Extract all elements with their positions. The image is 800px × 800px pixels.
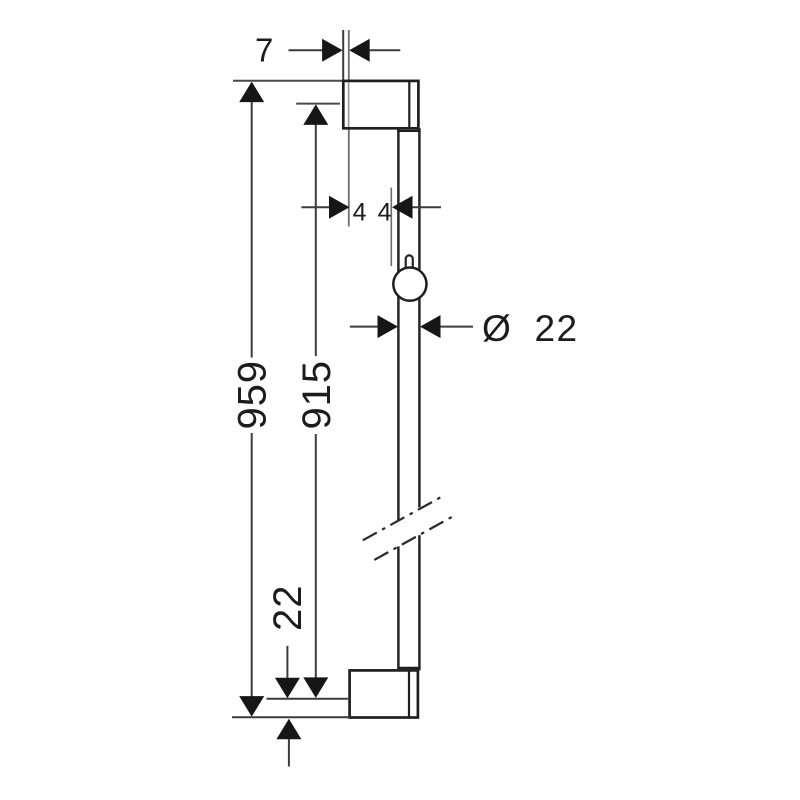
dimension 44 leader line right [413,206,442,208]
wire: extension line v2 segment inside top bracket [348,82,350,127]
rail left edge upper segment [397,130,400,521]
slider knob circle [393,268,426,301]
top bracket inner divider [408,81,410,128]
svg-text:4: 4 [353,199,367,227]
top bracket clamp step [398,128,419,131]
svg-text:915: 915 [295,360,339,429]
dimension 7 arrow right-pointing [322,39,343,62]
dimension 22 arrow up (below bracket) [276,719,301,740]
extension line top of 915 [296,103,340,105]
wire: extension line v2 (right of 7 gap, runs down to 44 dim) [348,30,350,227]
rail right edge lower segment [418,535,421,668]
dimension 22 leader line [286,646,288,680]
bottom bracket inner divider [408,670,410,717]
break line upper diagonal [363,497,441,540]
dimension 959 vertical line lower segment [251,433,253,699]
dimension 959 arrow up [239,82,264,103]
extension line B (959 bottom reference) [232,716,350,718]
dimension 915 vertical line upper segment [315,121,317,356]
dimension Ø22 leader line right [441,326,474,328]
dimension Ø22 leader line left [350,326,379,328]
dimension Ø22 arrow left-pointing [420,315,441,338]
dimension 915 arrow up [303,104,328,125]
extension line top of 959 [233,80,343,82]
svg-text:22: 22 [266,585,310,631]
dimension 22 arrow down [275,678,300,699]
dimension Ø22 arrow right-pointing [378,315,399,338]
break line lower diagonal [374,516,453,560]
wire: wall face extension line v1 (left of 7 gap) [342,30,344,81]
slider knob grip bump [406,255,413,269]
extension line right of 44 (to slider) [390,188,392,266]
dimension 7 leader line right [370,49,401,51]
dimension 44 arrow left-pointing [392,196,413,219]
dimension 915 arrow down [303,677,328,698]
dimension 22 lower leader line [288,739,290,767]
top wall bracket outline [343,81,418,128]
dimension 959 arrow down [239,696,264,717]
dimension 915 vertical line lower segment [315,434,317,681]
svg-text:7: 7 [255,32,273,69]
svg-text:2: 2 [535,308,556,349]
svg-text:4: 4 [378,199,392,227]
dimension 44 leader line left [301,206,330,208]
bottom bracket clamp step [398,668,419,671]
dimension 44 arrow right-pointing [329,196,350,219]
extension line A (915 bottom reference) [267,698,350,700]
svg-text:2: 2 [557,308,578,349]
svg-text:959: 959 [230,360,274,429]
dimension 7 arrow left-pointing [349,39,370,62]
rail left edge lower segment [397,546,400,668]
svg-text:Ø: Ø [482,308,511,349]
bottom wall bracket outline [350,670,418,717]
dimension 7 leader line left [289,49,324,51]
rail right edge upper segment [418,130,421,508]
dimension 959 vertical line upper segment [251,98,253,358]
